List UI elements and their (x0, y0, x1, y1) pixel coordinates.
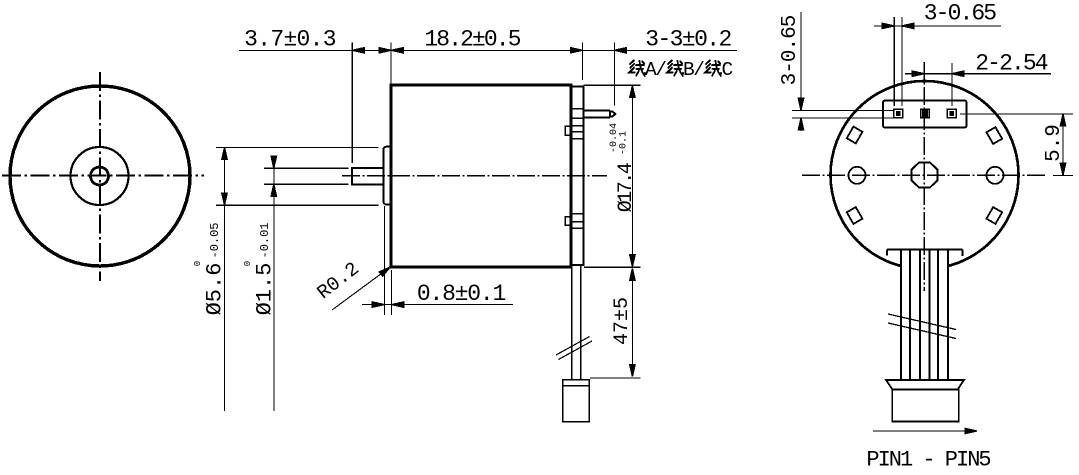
arrow at shaft tip (352, 48, 364, 53)
top 3-0.65 dim line (874, 25, 1001, 27)
notch rect bottom-left (847, 207, 863, 224)
ext line body front face (390, 43, 392, 86)
svg-text:47±5: 47±5 (611, 297, 634, 345)
pin order arrowhead (965, 428, 977, 433)
notch rect top-right (986, 127, 1002, 144)
Ø1.5 dim line (273, 157, 275, 412)
arrow at cap right (570, 48, 582, 53)
center shaft hole octagon (912, 163, 938, 188)
cap tab1 (565, 126, 571, 135)
5.9 bottom arrow (1060, 163, 1065, 175)
svg-text:3.7±0.3: 3.7±0.3 (244, 27, 336, 53)
0.8 right arrow (392, 302, 404, 307)
pad1 right ext line (901, 17, 903, 106)
svg-text:-0.1: -0.1 (619, 131, 630, 155)
motor body outer circle (10, 86, 190, 266)
R0.2 leader arrow (379, 267, 390, 276)
Ø5.6 dim line (224, 147, 226, 411)
pad 1 outline (894, 109, 903, 118)
cable collar right side (962, 250, 964, 257)
47±5 top arrow (630, 268, 635, 280)
5.9 lower ext line (1053, 174, 1073, 176)
label 线A/线B/线C (629, 59, 733, 81)
0.8 dimension line (362, 304, 513, 306)
rear horizontal centerline (802, 174, 1045, 176)
svg-text:-0.01: -0.01 (258, 222, 272, 258)
pad 2 outline (921, 109, 930, 118)
pad1 left ext line (893, 17, 895, 106)
wire break symbol (556, 337, 590, 356)
Ø1.5 top arrow (271, 156, 276, 168)
arrow at body face right (391, 48, 403, 53)
0.8 ext line boss face (383, 206, 385, 315)
5.9 dim line (1062, 114, 1064, 175)
5.9 upper ext line (960, 113, 1073, 115)
shaft boss circle (71, 147, 129, 205)
shaft circle (91, 167, 109, 185)
middle view centerline (342, 175, 607, 177)
svg-text:3-0.65: 3-0.65 (779, 15, 802, 85)
left 3-0.65 dim line upper (800, 12, 802, 110)
5.9 top arrow (1060, 114, 1065, 126)
pad row lower ext line (792, 117, 894, 119)
svg-text:B/: B/ (683, 59, 704, 81)
pin order arrow line (873, 430, 975, 432)
0.8 left arrow (372, 302, 384, 307)
pad 3 outline (947, 109, 956, 118)
notch rect bottom-right (986, 207, 1002, 224)
Ø1.5 bottom arrow (271, 184, 276, 196)
connector housing (883, 101, 967, 128)
svg-text:3-3±0.2: 3-3±0.2 (645, 27, 731, 53)
svg-text:0.8±0.1: 0.8±0.1 (417, 281, 506, 307)
shaft (352, 168, 384, 185)
ext line cap right (581, 43, 583, 81)
left 3-0.65 dim line lower (800, 118, 802, 131)
Ø17.4 bottom arrow (630, 255, 635, 267)
svg-text:Ø1.5: Ø1.5 (253, 263, 278, 316)
Ø17.4 top arrow (630, 86, 635, 98)
vertical centerline (99, 72, 101, 281)
Ø17.4 top ext line (584, 84, 641, 86)
0.8 ext line body face (391, 270, 393, 315)
cable collar top edge (887, 249, 963, 251)
Ø5.6 bottom ext line (216, 204, 379, 206)
ext line shaft tip (351, 43, 353, 164)
connector body (563, 386, 589, 422)
plug trapezoid (886, 380, 964, 390)
ribbon cable wires (900, 249, 902, 381)
pad 2 center (922, 110, 929, 117)
cap lines near tab1 (571, 125, 584, 127)
right hole (987, 167, 1004, 184)
svg-text:Ø17.4: Ø17.4 (615, 163, 638, 212)
svg-text:PIN1 - PIN5: PIN1 - PIN5 (866, 448, 990, 473)
svg-text:5.9: 5.9 (1043, 124, 1066, 162)
svg-text:0: 0 (193, 261, 203, 266)
cable whiteout (901, 248, 949, 381)
pad 3 center (949, 111, 954, 116)
Ø5.6 bottom arrow (222, 193, 227, 205)
svg-text:2-2.54: 2-2.54 (975, 51, 1048, 77)
left 3-0.65 lower arrow (798, 118, 803, 130)
svg-text:Ø5.6: Ø5.6 (203, 263, 228, 316)
cable break symbol (888, 314, 956, 330)
top dimension line (239, 49, 737, 51)
Ø17.4 dimension line (631, 86, 633, 267)
pad row upper ext line (792, 109, 894, 111)
Ø1.5 top ext line (264, 167, 348, 169)
rear circle (831, 81, 1019, 269)
ext line pin tip (613, 43, 615, 106)
lead wire (571, 265, 573, 380)
47±5 bottom ext line (590, 377, 641, 379)
cable collar left side (886, 250, 888, 256)
arrow at pin tip (614, 48, 626, 53)
Ø5.6 top arrow (222, 147, 227, 159)
left hole (849, 167, 866, 184)
Ø17.4 bottom ext line (584, 266, 641, 268)
cap pin slot lines (571, 108, 584, 110)
horizontal centerline (2, 175, 204, 177)
motor body rectangle (391, 85, 571, 267)
47±5 dimension line (631, 269, 633, 376)
plug body (892, 390, 959, 422)
pad3 center ext line (951, 63, 953, 106)
svg-text:18.2±0.5: 18.2±0.5 (424, 27, 520, 53)
2-2.54 left arrow (912, 71, 924, 76)
connector top strip (563, 380, 589, 386)
svg-text:A/: A/ (645, 59, 666, 81)
svg-text:0: 0 (243, 261, 253, 266)
svg-text:C: C (722, 59, 734, 81)
svg-text:3-0.65: 3-0.65 (924, 1, 997, 27)
terminal pin (584, 111, 616, 118)
R0.2 leader line (332, 268, 389, 310)
pad 1 center (896, 111, 901, 116)
notch rect top-left (847, 127, 863, 144)
Ø5.6 top ext line (216, 146, 379, 148)
top 3-0.65 left arrow (882, 23, 894, 28)
top 3-0.65 right arrow (902, 23, 914, 28)
left 3-0.65 upper arrow (798, 98, 803, 110)
arrow at body face left (379, 48, 391, 53)
Ø1.5 bottom ext line (264, 183, 348, 185)
svg-text:-0.05: -0.05 (208, 222, 222, 258)
end cap rectangle (571, 87, 584, 266)
cap tab2 (565, 217, 571, 226)
cap lines near tab2 (571, 213, 584, 215)
rear vertical centerline (923, 62, 925, 291)
47±5 bottom arrow (630, 365, 635, 377)
2-2.54 right arrow (952, 71, 964, 76)
shaft boss flange (383, 147, 391, 205)
2-2.54 dim line (905, 73, 1051, 75)
